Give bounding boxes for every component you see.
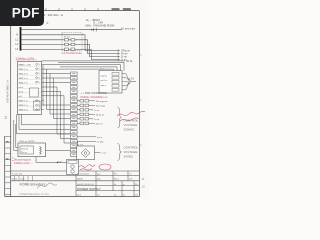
- fuse F1.3: [65, 48, 75, 50]
- XC1 pin 1: [112, 73, 119, 76]
- T1 secondary zigzag: [40, 147, 42, 155]
- connector feed wire 5: [42, 73, 71, 75]
- lower distribution wires: [77, 137, 101, 153]
- socket outlet feed wire: [77, 141, 79, 146]
- red inspector note: [79, 165, 95, 170]
- fuse F1.2: [65, 43, 75, 45]
- T1 feed wire a: [14, 120, 18, 151]
- brace control 24 group: [118, 143, 122, 161]
- connector feed bend 3: [60, 67, 117, 71]
- bus phase labels: [15, 34, 18, 51]
- T1 feed wire b: [16, 124, 18, 148]
- wire PE: [21, 29, 121, 31]
- red approval oval: [99, 164, 111, 170]
- wire N: [21, 35, 119, 51]
- title block line 2: [11, 175, 140, 177]
- frame left border: [10, 26, 12, 197]
- XC1 pin 3: [112, 81, 119, 84]
- connector feed wire 6: [42, 77, 71, 79]
- destination legend text: [86, 18, 115, 28]
- T1 output wire: [46, 150, 71, 152]
- connector feed bend 4: [42, 69, 114, 71]
- socket outlet box: [77, 146, 95, 160]
- X1 row exit stubs: [42, 101, 45, 110]
- transformer module T1: [18, 143, 46, 157]
- connector feed bend 2: [42, 65, 121, 71]
- M1 coil 1: [71, 165, 75, 169]
- cable bundle mark: [129, 78, 130, 85]
- branch wire to column row 1: [43, 65, 71, 105]
- title block line 3: [11, 180, 140, 182]
- power connector XC1: [99, 71, 122, 94]
- title block top line: [11, 170, 140, 172]
- brace control 230 group: [118, 107, 122, 128]
- mid branch wire 1: [42, 87, 71, 134]
- XC1 pin 2: [112, 77, 119, 80]
- XC1 pin 4: [112, 85, 119, 88]
- meter box M1: [67, 160, 79, 175]
- wire L3: [21, 50, 119, 60]
- socket outlet diamond: [81, 149, 90, 158]
- badge side tick: [47, 22, 49, 24]
- top border fold ticks: [46, 8, 98, 10]
- feeder labels: [121, 51, 131, 62]
- PE isolator symbol: [91, 28, 96, 31]
- frame bottom border: [5, 196, 140, 198]
- feeder arrowheads: [118, 50, 120, 61]
- right border zone ticks: [139, 55, 141, 145]
- XC1 pin 5: [112, 89, 119, 92]
- control voltage 230 label: [124, 119, 139, 132]
- frame right border: [138, 11, 140, 197]
- branch wire to column row 4: [54, 78, 71, 119]
- PE end device symbol: [122, 27, 124, 30]
- title block line 4: [76, 185, 139, 187]
- signature: [37, 183, 57, 189]
- lower labels: [97, 137, 106, 155]
- top border filled reference boxes: [112, 8, 120, 11]
- terminal block X1 outline: [17, 62, 41, 115]
- X1 inner option box: [30, 88, 39, 97]
- distribution labels: [94, 101, 109, 126]
- distribution fuse rows: [80, 100, 89, 125]
- PDF badge: [0, 0, 44, 26]
- XC1 inner notes: [101, 76, 108, 87]
- title block verticals: [76, 171, 134, 197]
- connector feed wire 7: [42, 81, 71, 83]
- mid branch wire 2: [42, 91, 71, 138]
- M1 coil 2: [71, 170, 75, 174]
- frame outer-left trim line: [4, 136, 6, 197]
- red margin ticks: [12, 158, 14, 161]
- X1 row separators: [18, 66, 42, 111]
- T1 red annotation: [14, 158, 33, 165]
- XC1 output wires: [122, 74, 130, 90]
- title block small cell ticks: [15, 176, 33, 181]
- branch wire to column row 2: [47, 69, 71, 109]
- bottom loop wire 3: [22, 114, 71, 125]
- connector feed bend 1: [58, 62, 124, 71]
- junction arrow: [58, 161, 61, 163]
- destination legend bracket: [93, 19, 95, 26]
- supply bus bar: [20, 27, 22, 51]
- feeder wire XD: [42, 60, 126, 62]
- title block texts: [12, 173, 139, 197]
- scan noise overlay: [0, 0, 149, 198]
- fuse F1.1: [65, 39, 75, 41]
- X1 row contact symbols: [36, 64, 40, 111]
- mid branch wire 3: [42, 96, 71, 143]
- frame top border: [43, 10, 139, 12]
- control voltage 24 label: [124, 145, 139, 158]
- M1 top cell: [68, 161, 77, 164]
- main fuse group F1 dashed enclosure: [62, 33, 82, 51]
- distribution wires: [77, 101, 95, 124]
- X1 rows: [19, 63, 32, 111]
- bottom loop wire 2: [19, 114, 71, 129]
- branch wire to column row 3: [50, 74, 71, 114]
- left revision ladder rungs: [5, 137, 11, 195]
- title block line 5: [76, 190, 139, 192]
- auxiliary wire with junction: [36, 157, 67, 163]
- terminal strip X10: [71, 72, 78, 156]
- wire L2: [21, 44, 119, 56]
- page background: [0, 0, 149, 198]
- T1 winding marks: [21, 149, 29, 154]
- T1 inner winding box: [20, 146, 34, 154]
- red field note: [117, 111, 145, 121]
- wire L1: [21, 40, 119, 54]
- bottom loop wire 1: [17, 114, 71, 134]
- spare terminal sub-box: [34, 101, 41, 110]
- terminal strip X10 pin marks: [72, 74, 75, 155]
- ladder revision marks: [6, 141, 9, 143]
